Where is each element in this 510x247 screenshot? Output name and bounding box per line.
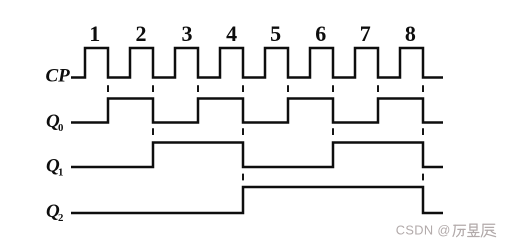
- svg-text:3: 3: [182, 21, 193, 46]
- svg-text:1: 1: [58, 166, 63, 178]
- svg-text:5: 5: [270, 21, 281, 46]
- svg-text:CSDN @: CSDN @: [396, 222, 451, 237]
- svg-text:6: 6: [315, 21, 326, 46]
- svg-text:2: 2: [58, 212, 63, 224]
- svg-text:0: 0: [58, 122, 63, 134]
- svg-text:2: 2: [136, 21, 147, 46]
- svg-text:7: 7: [360, 21, 371, 46]
- svg-text:4: 4: [226, 21, 237, 46]
- svg-text:1: 1: [89, 21, 100, 46]
- svg-text:8: 8: [405, 21, 416, 46]
- svg-text:CP: CP: [46, 65, 71, 86]
